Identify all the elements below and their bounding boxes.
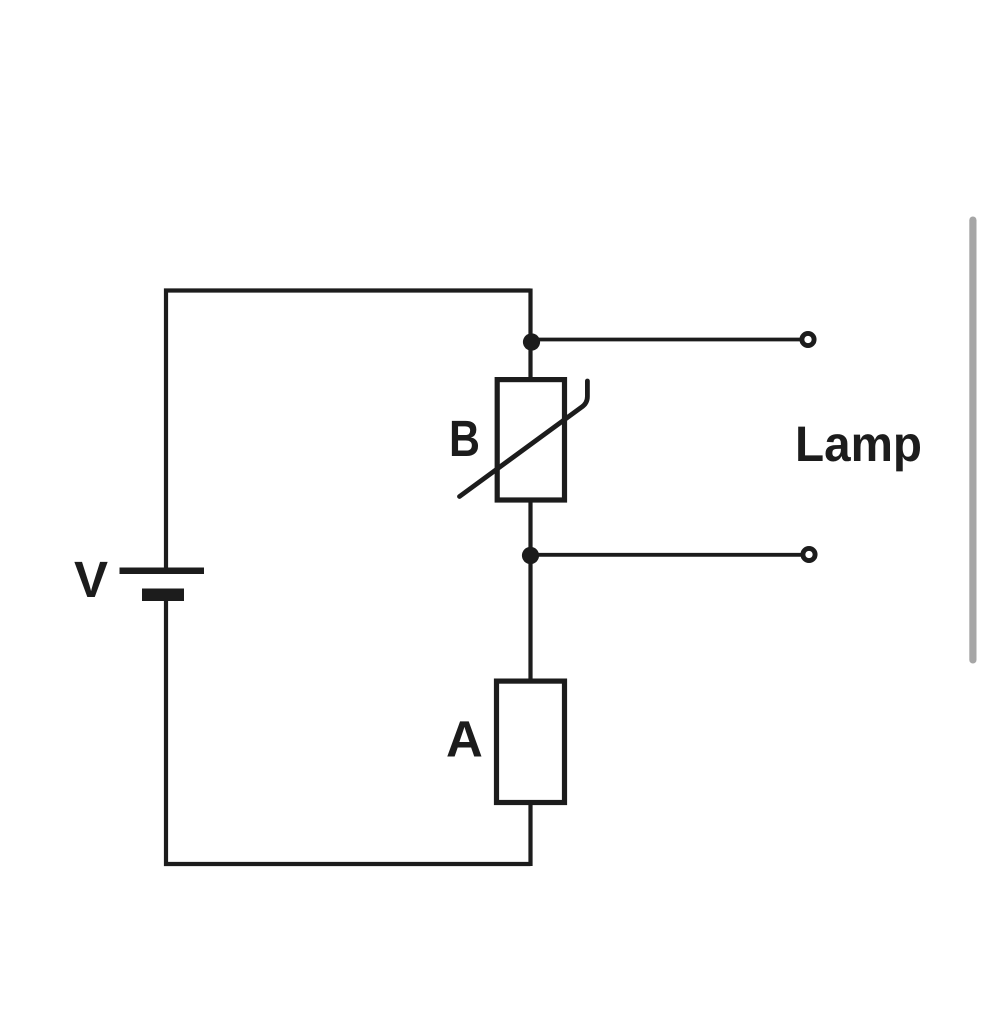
svg-text:B: B <box>449 410 480 467</box>
svg-text:Lamp: Lamp <box>795 416 922 472</box>
svg-text:V: V <box>74 551 108 608</box>
svg-text:A: A <box>446 711 483 768</box>
